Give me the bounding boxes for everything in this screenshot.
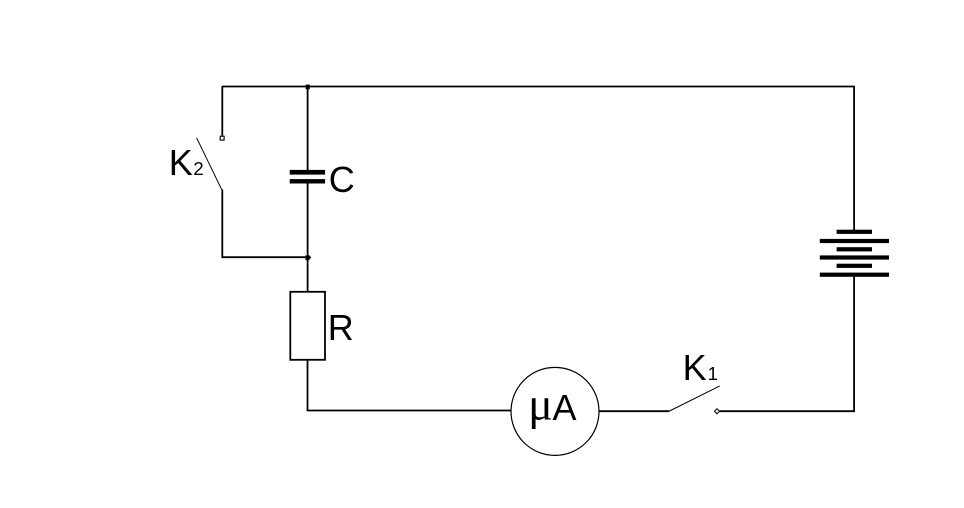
wire right vertical bottom lead — [853, 277, 855, 411]
wire resistor bottom lead — [307, 360, 309, 411]
switch K2 — [197, 136, 224, 190]
battery B1 — [820, 230, 889, 277]
ammeter uA — [511, 367, 599, 455]
svg-text:C: C — [329, 159, 355, 200]
switch K1 — [669, 386, 720, 414]
wire K2 bottom lead — [221, 190, 223, 258]
wire top horizontal — [222, 86, 855, 88]
svg-text:A: A — [553, 387, 577, 428]
wire capacitor top lead — [307, 87, 309, 171]
junction dot at capacitor branch top — [306, 85, 310, 90]
wire K1 to right corner — [720, 410, 855, 412]
wire right vertical top lead — [853, 87, 855, 231]
svg-text:μ: μ — [528, 378, 553, 429]
wire capacitor bottom lead — [307, 184, 309, 293]
wire bottom of K2 loop horizontal — [222, 256, 308, 258]
wire K2 top lead — [221, 87, 223, 136]
wire bottom horizontal to meter — [307, 410, 512, 412]
wire meter to K1 — [599, 410, 669, 412]
svg-text:R: R — [328, 307, 354, 348]
capacitor C — [290, 170, 325, 184]
node junction K2/C/R — [306, 255, 312, 260]
resistor R — [290, 292, 325, 360]
